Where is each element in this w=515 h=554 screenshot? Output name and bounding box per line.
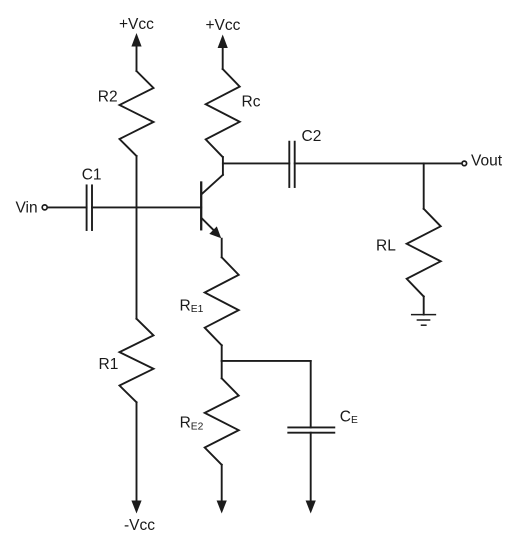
emitter arrowhead xyxy=(209,226,221,238)
wire node to RE2 xyxy=(221,361,223,378)
ground xyxy=(412,315,436,326)
svg-text:R2: R2 xyxy=(98,89,118,106)
collector lead xyxy=(202,175,223,194)
resistor RE2 xyxy=(205,378,239,465)
capacitor C2 xyxy=(289,142,294,187)
wire Vin to C1 xyxy=(48,206,87,208)
resistor R2 xyxy=(120,71,154,156)
svg-text:RL: RL xyxy=(376,238,396,255)
transistor Q1 xyxy=(201,175,223,239)
wire CE to arrow xyxy=(310,433,312,502)
supply arrow below CE xyxy=(306,501,316,514)
svg-text:C2: C2 xyxy=(302,128,322,145)
svg-text:C1: C1 xyxy=(82,167,102,184)
wire C2 to Vout xyxy=(295,162,461,164)
resistor R1 xyxy=(120,319,154,403)
resistor RL xyxy=(407,209,441,297)
svg-text:Rc: Rc xyxy=(242,94,261,111)
wire C1 to base xyxy=(92,206,201,208)
svg-text:R1: R1 xyxy=(99,356,119,373)
base bar xyxy=(200,183,202,230)
+Vcc supply arrow (middle) xyxy=(218,35,228,70)
+Vcc supply arrow (left) xyxy=(131,33,141,71)
svg-text:+Vcc: +Vcc xyxy=(206,17,241,34)
svg-text:RE2: RE2 xyxy=(180,415,204,433)
capacitor CE xyxy=(288,427,334,432)
node Vout terminal xyxy=(462,161,467,166)
svg-text:-Vcc: -Vcc xyxy=(124,517,155,534)
svg-text:Vout: Vout xyxy=(471,153,503,170)
resistor RE1 xyxy=(205,257,239,345)
wire collector node xyxy=(223,162,289,164)
node Vin terminal xyxy=(42,205,47,210)
supply arrow below RE2 xyxy=(217,501,227,514)
-Vcc supply arrow xyxy=(131,501,141,514)
capacitor C1 xyxy=(87,185,92,230)
wire RE2 to arrow xyxy=(221,465,223,502)
wire node to CE xyxy=(310,361,312,428)
svg-text:RE1: RE1 xyxy=(180,298,204,316)
wire emitter node horizontal xyxy=(222,360,311,362)
resistor Rc xyxy=(206,69,240,157)
svg-text:CE: CE xyxy=(340,409,358,427)
wire Rc to collector xyxy=(222,157,224,175)
svg-text:+Vcc: +Vcc xyxy=(119,16,154,33)
wire RE1 to node xyxy=(221,345,223,361)
wire Vout node to RL xyxy=(423,163,425,208)
emitter lead xyxy=(202,219,214,231)
svg-text:Vin: Vin xyxy=(16,200,38,217)
wire base-node vertical (R2 bottom to R1 top) xyxy=(136,156,138,319)
wire RL to ground xyxy=(423,297,425,315)
wire emitter to RE1 xyxy=(221,239,223,258)
wire R1 to -Vcc arrow xyxy=(136,402,138,502)
